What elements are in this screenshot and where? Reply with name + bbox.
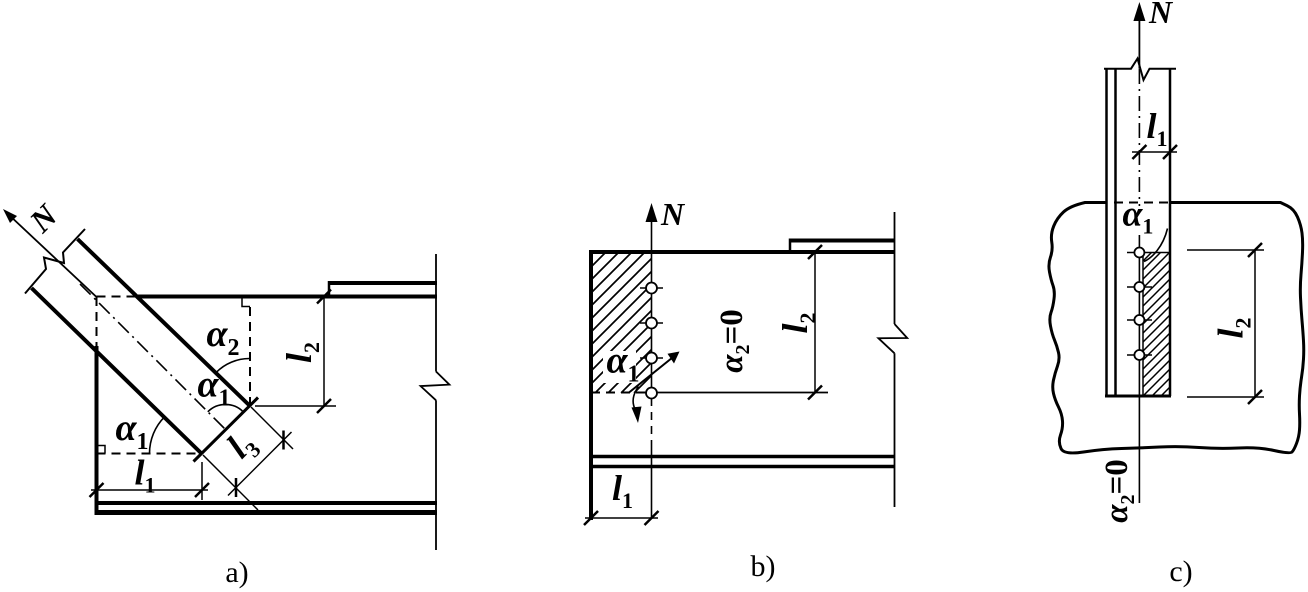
- dimension l1 (c): [1132, 145, 1177, 159]
- angle arc alpha1 at brace end: [208, 404, 243, 411]
- bolt circles with ticks (c): [1127, 248, 1152, 361]
- svg-text:N: N: [660, 196, 686, 232]
- force arrow N (b): [646, 203, 658, 222]
- force arrow N (c): [1133, 2, 1145, 69]
- dimension l1 line: [90, 462, 210, 500]
- bottom chord top line: [95, 501, 437, 505]
- brace upper edge: [78, 239, 250, 406]
- hidden plate edge behind member (dashed): [1114, 202, 1170, 204]
- label alpha1 (b): [603, 351, 636, 383]
- brace centerline: [80, 284, 226, 430]
- member centerline: [1138, 69, 1140, 503]
- member outer-left line: [1105, 69, 1108, 396]
- angle arc alpha2 at brace corner: [216, 359, 249, 373]
- svg-text:b): b): [751, 550, 776, 583]
- svg-text:c): c): [1169, 555, 1192, 588]
- gusset plate left edge hidden (dashed): [96, 297, 98, 348]
- force arrow N of brace: [3, 209, 97, 297]
- bolt4 horizontal line to l2: [640, 392, 828, 394]
- brace end cut line: [194, 398, 259, 462]
- diffusion ray with arrow: [629, 352, 680, 393]
- svg-text:α2=0: α2=0: [1099, 459, 1139, 523]
- member right line: [1169, 69, 1172, 396]
- angle arc alpha1 (c): [1144, 229, 1168, 262]
- top edge of gusset: [589, 250, 895, 254]
- svg-text:α2=0: α2=0: [714, 309, 754, 373]
- hatched anchor strip: [1143, 253, 1170, 397]
- angle arc alpha1 at bottom corner: [149, 417, 164, 454]
- gusset plate top edge hidden (dashed): [97, 296, 141, 298]
- brace lower edge: [32, 288, 202, 454]
- svg-text:a): a): [225, 556, 248, 589]
- dimension l2 line: [255, 290, 336, 414]
- chord top line: [591, 455, 895, 459]
- member inner-left line: [1114, 69, 1117, 396]
- curved angle arrow: [632, 387, 642, 424]
- left edge of plate: [589, 252, 593, 520]
- bolt line: [651, 207, 653, 519]
- right-angle mark top: [242, 299, 250, 307]
- dimension l2 (b): [808, 245, 822, 400]
- gusset plate top edge: [138, 295, 437, 299]
- hatch strip left boundary: [1142, 253, 1144, 397]
- right-angle mark bottom-left: [97, 446, 106, 454]
- hatch strip top boundary / bolt1 tick: [1127, 252, 1170, 254]
- chord bottom line: [591, 465, 895, 469]
- member bottom end: [1105, 395, 1171, 398]
- bolt circles with ticks: [640, 283, 663, 399]
- gusset plate left edge: [95, 346, 99, 515]
- dimension l2 (c): [1187, 243, 1264, 404]
- member top cut with break: [1104, 59, 1176, 81]
- label alpha1 (c): [1121, 206, 1152, 235]
- brace break cut (upper-left end): [25, 229, 85, 294]
- dimension l3 line: [203, 407, 293, 510]
- bottom chord bottom line: [95, 510, 437, 515]
- dimension l1 (b): [584, 511, 659, 525]
- dashed vertical reference line: [249, 307, 251, 404]
- hatched end-plate area: [593, 254, 652, 393]
- right break line of beam: [878, 212, 907, 507]
- gusset plate wavy outline: [1049, 203, 1304, 453]
- svg-text:N: N: [1148, 0, 1174, 30]
- dashed horizontal reference line: [97, 453, 202, 455]
- upper flange ledge: [790, 239, 895, 253]
- upper chord flange ledge: [329, 281, 437, 297]
- right break line of beam: [421, 254, 450, 550]
- dashed hatch bottom line: [591, 392, 652, 394]
